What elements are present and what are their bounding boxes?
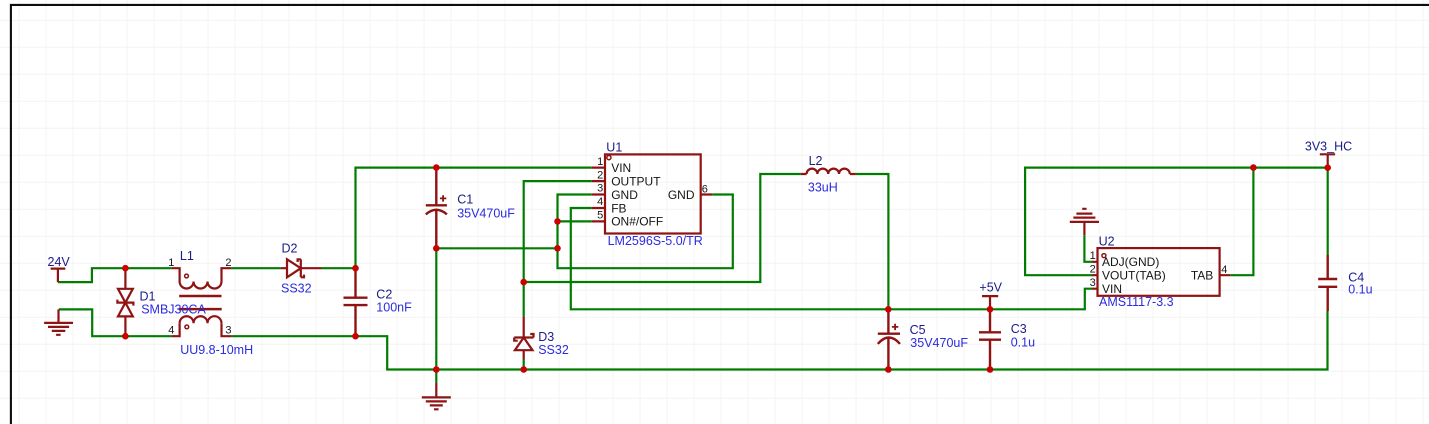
svg-text:6: 6 [702,184,708,196]
svg-text:C5: C5 [910,323,926,337]
svg-text:0.1u: 0.1u [1348,283,1372,297]
svg-text:1: 1 [1090,250,1096,262]
svg-text:D2: D2 [282,242,298,256]
svg-text:33uH: 33uH [808,181,838,195]
svg-text:SS32: SS32 [281,282,312,296]
svg-text:VOUT(TAB): VOUT(TAB) [1102,269,1166,283]
svg-text:D1: D1 [140,289,156,303]
svg-text:VIN: VIN [1102,282,1122,296]
svg-text:FB: FB [611,201,626,215]
svg-text:TAB: TAB [1191,269,1213,283]
svg-text:VIN: VIN [611,161,631,175]
svg-text:2: 2 [597,169,603,181]
svg-text:24V: 24V [48,255,71,269]
svg-text:35V470uF: 35V470uF [457,207,515,221]
svg-text:ADJ(GND): ADJ(GND) [1102,255,1159,269]
svg-text:2: 2 [225,257,231,269]
svg-text:SMBJ30CA: SMBJ30CA [141,303,206,317]
svg-text:C2: C2 [376,288,392,302]
svg-text:100nF: 100nF [376,301,412,315]
svg-text:4: 4 [1221,264,1227,276]
svg-text:3: 3 [597,183,603,195]
svg-text:UU9.8-10mH: UU9.8-10mH [180,343,253,357]
svg-text:3: 3 [225,324,231,336]
svg-text:2: 2 [1090,263,1096,275]
svg-text:LM2596S-5.0/TR: LM2596S-5.0/TR [608,234,703,248]
svg-text:C3: C3 [1011,322,1027,336]
svg-text:GND: GND [611,188,638,202]
svg-text:GND: GND [668,188,695,202]
svg-text:4: 4 [168,324,174,336]
svg-text:1: 1 [168,257,174,269]
svg-text:0.1u: 0.1u [1011,335,1035,349]
svg-text:4: 4 [597,196,603,208]
svg-text:AMS1117-3.3: AMS1117-3.3 [1099,295,1174,309]
svg-text:L2: L2 [809,154,823,168]
svg-text:OUTPUT: OUTPUT [611,174,661,188]
svg-text:ON#/OFF: ON#/OFF [611,215,663,229]
svg-text:1: 1 [597,156,603,168]
svg-text:+5V: +5V [979,281,1002,295]
svg-text:5: 5 [597,210,603,222]
svg-text:U2: U2 [1099,234,1115,248]
svg-text:U1: U1 [606,140,622,154]
svg-text:L1: L1 [180,249,194,263]
svg-text:C1: C1 [457,193,473,207]
svg-text:3: 3 [1090,277,1096,289]
svg-text:35V470uF: 35V470uF [910,336,968,350]
svg-text:3V3_HC: 3V3_HC [1305,139,1352,153]
svg-text:SS32: SS32 [538,343,569,357]
